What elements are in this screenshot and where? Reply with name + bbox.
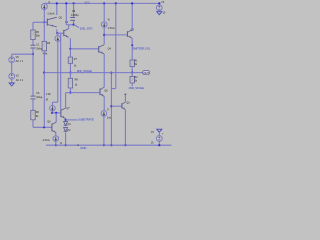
wire R5 top lead [32,22,34,30]
junction I6 node / Q8 base wire [103,34,105,36]
svg-text:4.9k: 4.9k [43,52,48,55]
voltage source V4 [156,136,162,142]
junction rail / C8 [73,2,75,4]
diode D2 [64,128,68,132]
wire rail drop x66 [65,3,67,24]
wire Q5 base [33,21,47,23]
wire input node down [32,54,34,96]
junction Q5 collector / rail [56,2,58,4]
svg-text:-1.5mA: -1.5mA [42,139,50,142]
junction Q2 emitter node [69,48,71,50]
wire I1 to base node [43,10,45,23]
wire I6 top lead [103,3,105,21]
wire Q7 base [52,112,61,114]
wire R6 down to bend [32,120,34,128]
wire I4 to bottom rail [55,141,57,145]
current source I6 [101,22,107,28]
wire stub to net flag [74,25,79,28]
port flag OUT [143,71,150,75]
wire emitter node right [66,119,78,121]
resistor R3 [42,41,46,51]
wire C1 to input node [32,48,34,54]
transistor Q4 [99,45,105,54]
resistor R2 [130,76,134,83]
wire I8 to base node [51,111,53,113]
junction R3 chain / OUT wire [43,72,45,74]
wire I7 to bottom rail [103,116,105,145]
wire Q8 emitter down [131,38,133,45]
wire Q4 emitter to Q6 collector [103,54,105,88]
transistor Q9 [52,122,56,133]
voltage source V5 [9,57,15,63]
current source I8 [50,105,56,111]
wire bend down to V5 [11,54,13,57]
ground above V4 [157,129,162,132]
wire bend down to Q7 collector [65,93,67,108]
wire Q9 emitter down [55,133,57,136]
net flag on bottom rail [77,144,79,146]
transistor Q5 [47,17,57,27]
wire Q2 collector up [68,25,70,29]
junction V4 / bottom rail [158,144,160,146]
junction Q8 collector / rail [131,2,133,4]
wire V3 to ground [158,11,160,12]
capacitor C8 [70,18,75,21]
capacitor C1 [31,45,36,48]
wire x111.4 vertical [110,73,112,146]
svg-text:0.005µ: 0.005µ [71,14,79,17]
junction x111.4 / OUT wire [110,72,112,74]
wire I6 to Q4 collector [103,27,105,44]
svg-text:MID_STAGE: MID_STAGE [77,69,92,73]
junction x111.4 / Q3 base wire [110,105,112,107]
junction Q8 emitter node [131,44,133,46]
resistor R8 [68,78,72,88]
junction Q3 emitter / bottom rail [124,144,126,146]
wire Q3 emitter down [124,110,126,146]
transistor Q2 [64,29,69,38]
wire R2 top lead [131,73,133,77]
wire I2 top lead [57,33,59,36]
junction D2 / bottom rail [65,144,67,146]
junction I4 / bottom rail [55,144,57,146]
transistor Q3 [122,102,126,110]
wire Q6 emitter down [103,96,105,110]
wire bottom V- rail [46,144,172,146]
wire V5 to V2 [11,63,13,74]
svg-text:VCC: VCC [85,0,91,4]
wire C6 to R6 [32,99,34,110]
junction R1 R2 / OUT wire [131,72,133,74]
wire I2 bend left [52,101,57,103]
wire R1 to OUT wire [131,67,133,73]
wire V4 to bottom rail [158,141,160,145]
junction rail / V3 [158,2,160,4]
wire Q3 base [111,105,122,107]
wire C8 bottom lead [73,20,75,24]
current source I1 [41,4,47,10]
ground below V3 [157,12,162,15]
junction I1/base node [43,21,45,23]
wire V2 to ground [11,79,13,83]
junction rail x66 [65,2,67,4]
wire Q5 emitter node to Q2 base [57,32,64,34]
junction rail / I6 [103,2,105,4]
wire Q2 emitter down [69,38,71,49]
junction Q5 emitter node [56,32,58,34]
wire R8 top lead [69,73,71,79]
wire Q8 base [104,34,127,36]
capacitor C6 [31,96,36,99]
wire Q8 collector to rail [131,3,133,30]
svg-text:SUBSTRATE: SUBSTRATE [78,117,94,121]
wire R7 top lead [69,49,71,57]
svg-text:-1.5mA: -1.5mA [47,13,55,16]
wire emitter node to R1 [131,45,133,60]
wire R3 down to OUT wire [43,51,45,73]
transistor Q8 [127,30,132,38]
wire collector node left [66,24,73,26]
svg-text:GND: GND [80,146,86,150]
wire R3 chain to bottom [43,73,45,128]
svg-text:2ND_STAGE: 2ND_STAGE [129,86,145,90]
transistor Q7 [61,108,66,119]
wire top V+ rail [44,2,160,4]
wire R2 bottom lead [131,83,133,86]
junction C8 / collector node [73,24,75,26]
svg-text:AC 1 1: AC 1 1 [16,79,24,82]
wire OUT net [44,72,142,74]
junction R8 / Q6 base wire [69,92,71,94]
wire Q7 emitter down [65,118,67,120]
wire Q5 collector to rail [56,3,58,15]
resistor R6 [31,110,35,120]
junction I7 / bottom rail [103,144,105,146]
wire bend down to I8 [51,102,53,105]
resistor R5 [31,30,35,40]
junction x111.4 / bottom rail [110,144,112,146]
ground below V2 [9,83,14,86]
wire R7 to OUT wire [69,63,71,72]
resistor R1 [130,60,134,67]
net flag on Q3 collector [125,94,127,95]
wire Q2 base node down to Q7 [60,33,62,109]
wire base node to R3 [43,22,45,41]
svg-text:1.5mA: 1.5mA [108,27,115,30]
wire R8 bottom lead [69,88,71,93]
voltage source V2 [9,73,15,79]
wire Q9 base [33,126,52,128]
junction R7 / OUT wire [69,72,71,74]
junction base wire / R3 chain [43,126,45,128]
svg-text:OUT: OUT [144,71,150,75]
svg-text:4.9k: 4.9k [46,93,51,96]
junction Q7 emitter node [65,119,67,121]
svg-text:AC 1 1: AC 1 1 [16,60,24,63]
wire I2 down long [57,41,59,102]
wire rail drop x115.8 [115,3,117,88]
wire R5 to C1 [32,39,34,45]
svg-text:1Meg: 1Meg [36,96,43,99]
transistor Q6 [100,87,104,96]
current source I2 [55,36,61,42]
svg-text:2ND_STG: 2ND_STG [80,26,93,30]
wire Q2 emitter to Q4 base [70,48,98,50]
diode D1 [64,122,68,126]
wire input node to V5 [12,53,33,55]
wire jog at y88.6 [111,88,115,90]
wire C8 top lead [73,3,75,17]
resistor R7 [68,57,72,63]
current source I4 [53,136,59,142]
wire D2 to bottom rail [65,132,67,145]
voltage source V3 [156,5,162,11]
svg-text:EMITTER_FOL: EMITTER_FOL [133,47,151,51]
current source I7 [101,111,107,117]
junction I8 / Q7 base wire [51,112,53,114]
junction rail x115.8 [115,2,117,4]
wire Q9 collector up [55,113,57,122]
wire Q5 emitter down [56,29,58,33]
wire ground to V4 [158,132,160,135]
wire Q3 collector up [124,95,126,102]
wire Q6 base [66,92,100,94]
junction input node [32,53,34,55]
junction Q9 collector / Q7 base wire [55,112,57,114]
